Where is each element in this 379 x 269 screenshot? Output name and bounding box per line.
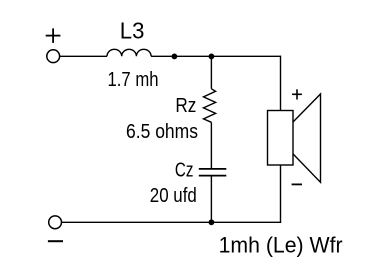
svg-text:6.5 ohms: 6.5 ohms: [126, 121, 198, 143]
terminal circle -: [49, 216, 62, 229]
junction dot A: [172, 54, 178, 60]
svg-text:Cz: Cz: [175, 160, 194, 182]
terminal plus sign (+ input): [46, 28, 61, 43]
svg-text:1.7 mh: 1.7 mh: [108, 69, 159, 91]
wire from + terminal to inductor: [60, 55, 107, 57]
speaker - marking: [292, 183, 302, 185]
wire right vertical bottom (speaker to bottom rail): [280, 165, 282, 222]
bottom rail wire: [62, 221, 282, 223]
junction dot B (top of RC branch): [209, 54, 215, 60]
wire from capacitor down to bottom rail: [210, 176, 212, 223]
speaker driver rectangle: [268, 111, 294, 166]
terminal circle +: [47, 50, 60, 63]
resistor Rz: [204, 89, 216, 123]
wire from resistor to capacitor: [210, 122, 212, 169]
wire from junction B down to resistor: [210, 56, 212, 88]
wire right vertical top (to speaker): [280, 56, 282, 111]
svg-text:Rz: Rz: [175, 95, 196, 117]
svg-text:L3: L3: [120, 18, 145, 44]
junction dot C (bottom of RC branch): [209, 219, 215, 225]
terminal minus sign (- input): [48, 240, 63, 242]
wire from inductor to right corner: [151, 55, 280, 57]
capacitor Cz: [199, 169, 227, 176]
speaker cone: [293, 94, 321, 182]
svg-text:20 ufd: 20 ufd: [150, 185, 197, 207]
inductor L3: [107, 49, 151, 56]
svg-text:1mh (Le) Wfr: 1mh (Le) Wfr: [219, 233, 344, 258]
speaker + marking: [292, 89, 302, 99]
